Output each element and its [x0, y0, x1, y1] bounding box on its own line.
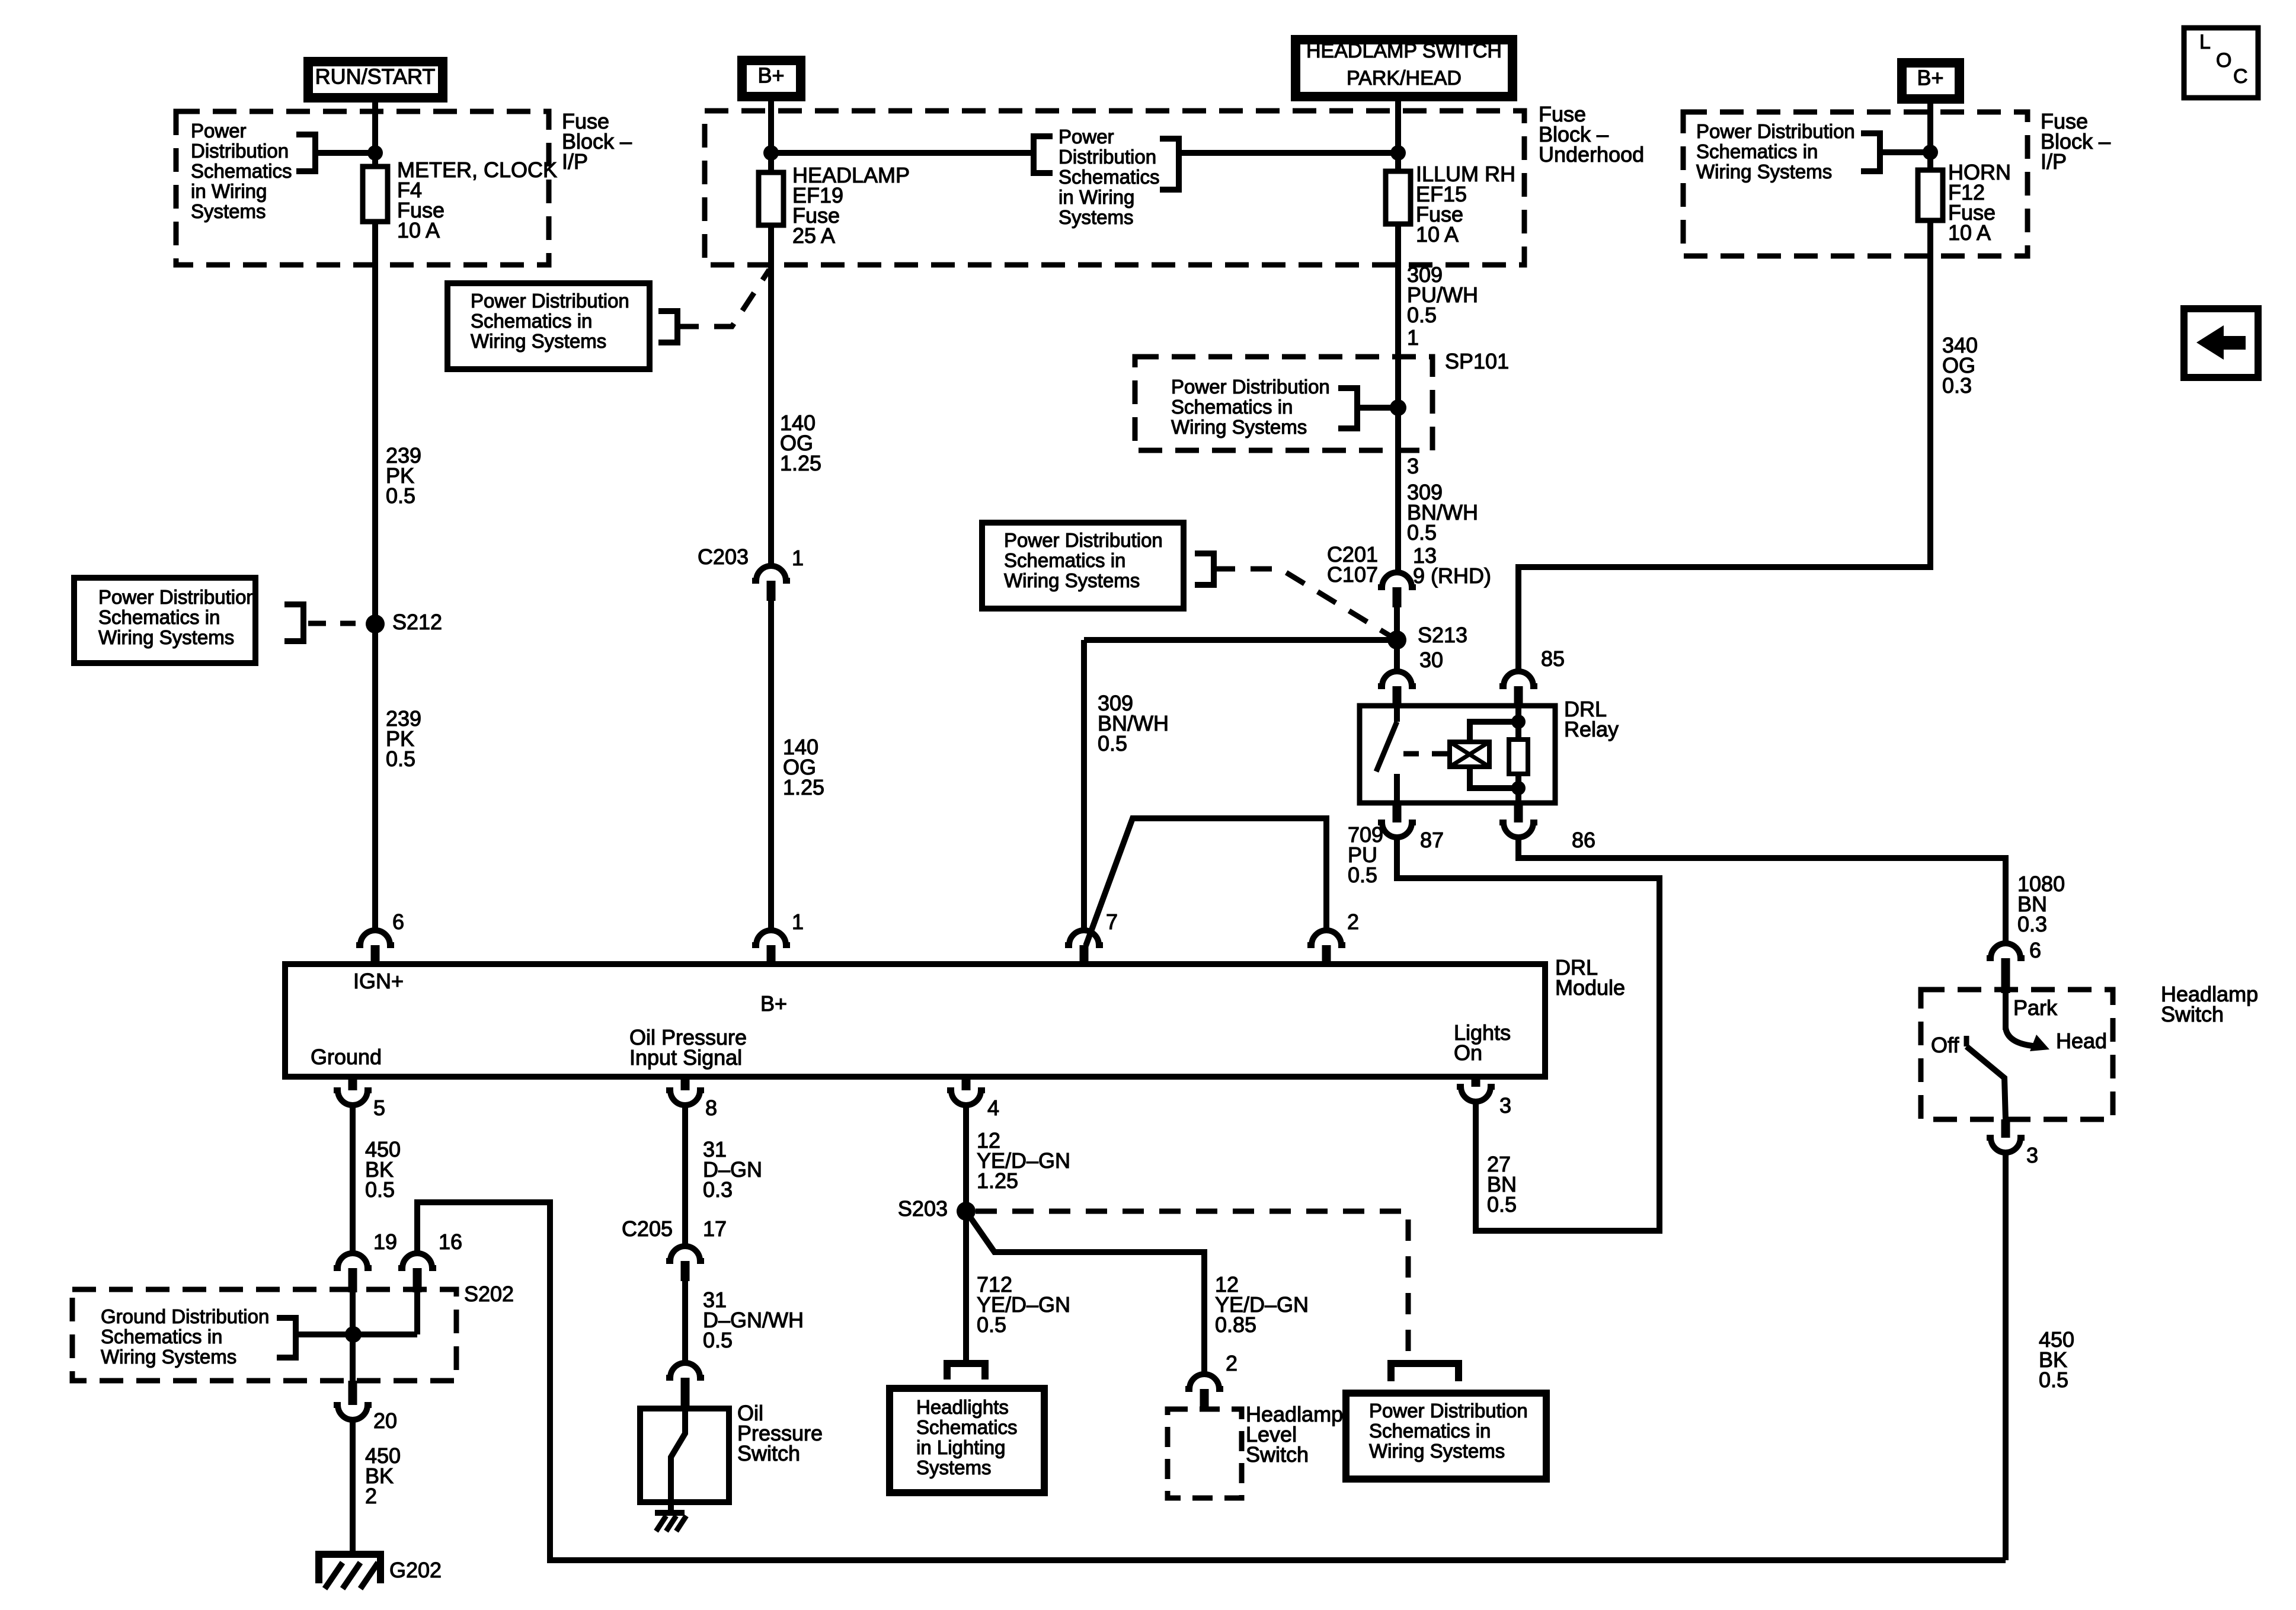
connector stub DRL pin 3	[1472, 1077, 1480, 1087]
svg-text:Power Distribution: Power Distribution	[1171, 376, 1330, 398]
connector dome S202 pin 16	[398, 1253, 436, 1268]
svg-text:O: O	[2216, 49, 2231, 72]
wire bracket to F12 wire	[1880, 149, 1930, 155]
svg-text:16: 16	[439, 1230, 462, 1254]
connector dome relay pin 85	[1499, 671, 1537, 686]
connector stub S202 pin 16	[413, 1268, 422, 1292]
wire down to DRL pin 7	[1081, 640, 1087, 932]
Headlamp Level Switch dashed box	[1168, 1409, 1242, 1498]
splice dot S213	[1387, 630, 1406, 649]
svg-text:5: 5	[373, 1096, 385, 1120]
wire bracket to F4 wire	[315, 150, 375, 156]
svg-text:SP101: SP101	[1445, 349, 1509, 373]
svg-text:85: 85	[1541, 646, 1565, 671]
svg-text:1.25: 1.25	[977, 1169, 1018, 1193]
svg-text:6: 6	[392, 910, 404, 934]
oil pressure switch ground symbol	[655, 1510, 685, 1516]
svg-text:Wiring Systems: Wiring Systems	[1369, 1440, 1505, 1462]
svg-text:0.5: 0.5	[1348, 863, 1377, 887]
connector cup DRL pin 3	[1457, 1087, 1495, 1102]
wire B+ down to fuse EF19	[768, 101, 774, 172]
wire S213 left to pin7 column	[1084, 637, 1397, 643]
connector stub relay pin 87	[1393, 803, 1402, 822]
svg-text:1: 1	[792, 910, 804, 934]
bracket right of underhood note	[1160, 139, 1179, 190]
note box Power Distribution Schematics (C201)	[982, 523, 1184, 609]
svg-text:PARK/HEAD: PARK/HEAD	[1347, 67, 1462, 89]
svg-text:0.5: 0.5	[1407, 303, 1437, 327]
connector dome DRL pin 1	[752, 930, 790, 945]
connector stub headlamp pin 6	[2001, 958, 2010, 993]
relay switch blade	[1376, 722, 1397, 772]
fuse EF19	[759, 172, 784, 225]
svg-text:Distribution: Distribution	[191, 140, 289, 162]
connector stub DRL pin 8	[681, 1077, 690, 1090]
svg-text:Schematics in: Schematics in	[471, 310, 592, 332]
wire junction to left bracket	[771, 150, 1034, 156]
svg-text:Switch: Switch	[1246, 1442, 1309, 1467]
svg-text:2: 2	[1226, 1351, 1237, 1375]
note box Power Distribution Schematics (EF19)	[447, 283, 650, 369]
Headlights Schematics box	[890, 1388, 1044, 1493]
svg-text:3: 3	[1499, 1093, 1511, 1118]
wire C203 down to DRL pin 1	[768, 601, 774, 932]
wire relay 86 to headlamp switch pin 6	[1518, 837, 2006, 943]
connector stub oil pressure switch	[681, 1378, 690, 1409]
connector stub C205	[681, 1261, 690, 1281]
relay dashed actuation link	[1403, 751, 1447, 757]
connector dome DRL pin 7	[1065, 930, 1103, 945]
fuse block I/P dashed box (left)	[176, 111, 549, 265]
svg-text:RUN/START: RUN/START	[315, 65, 436, 89]
back-arrow legend box	[2184, 309, 2258, 377]
svg-text:C205: C205	[622, 1217, 673, 1241]
svg-text:Switch: Switch	[2161, 1002, 2224, 1026]
connector cup DRL pin 5	[334, 1090, 372, 1105]
Power Distribution Schematics box (bottom right)	[1346, 1393, 1546, 1479]
headlamp switch travel arc with arrow	[2006, 1028, 2033, 1046]
svg-text:3: 3	[2026, 1143, 2038, 1167]
svg-text:Schematics: Schematics	[916, 1416, 1018, 1438]
connector dome relay pin 30	[1378, 671, 1416, 686]
svg-text:Wiring Systems: Wiring Systems	[101, 1346, 236, 1368]
svg-text:Input Signal: Input Signal	[629, 1045, 742, 1070]
bracket for note (left fuse block)	[296, 135, 315, 171]
svg-text:Systems: Systems	[916, 1457, 992, 1478]
DRL relay box	[1360, 706, 1555, 803]
wire F12 down and left to relay 85	[1518, 220, 1930, 671]
svg-text:Schematics in: Schematics in	[1369, 1420, 1491, 1442]
svg-text:in Lighting: in Lighting	[916, 1436, 1005, 1458]
wire RUN/START down to fuse F4	[372, 103, 378, 167]
relay coil box with X	[1450, 742, 1489, 767]
svg-text:Headlights: Headlights	[916, 1396, 1009, 1418]
wire DRL pin8 down to C205	[682, 1105, 688, 1247]
junction dot on F12 wire	[1923, 145, 1938, 160]
bracket right of C201 note box	[1195, 553, 1214, 585]
svg-text:Wiring Systems: Wiring Systems	[471, 330, 606, 352]
S202 dashed box	[72, 1289, 456, 1381]
svg-text:I/P: I/P	[562, 149, 588, 174]
svg-text:Power Distribution: Power Distribution	[471, 290, 629, 312]
svg-text:8: 8	[705, 1096, 717, 1120]
wire S203 diagonal to level switch	[966, 1211, 1204, 1375]
wire relay 87 to DRL pin 3	[1397, 837, 1659, 1231]
svg-text:C: C	[2233, 65, 2248, 88]
svg-text:G202: G202	[389, 1558, 442, 1582]
svg-text:Underhood: Underhood	[1539, 142, 1644, 167]
svg-text:Relay: Relay	[1564, 717, 1619, 741]
svg-text:Schematics in: Schematics in	[101, 1326, 222, 1347]
connector stub DRL pin 7	[1080, 945, 1089, 964]
wire right bracket to ILLUM wire	[1179, 150, 1398, 156]
connector C201/C107 stub	[1393, 587, 1402, 607]
connector stub DRL pin 2	[1322, 945, 1331, 964]
DRL module box	[285, 964, 1545, 1077]
svg-text:0.3: 0.3	[2017, 912, 2047, 936]
svg-text:S202: S202	[464, 1282, 514, 1306]
wire terminal power dist note	[1391, 1363, 1459, 1381]
svg-text:0.5: 0.5	[1098, 731, 1127, 756]
ground symbol G202	[319, 1554, 380, 1583]
svg-text:On: On	[1454, 1041, 1482, 1065]
power state box B+ (right)	[1902, 63, 1959, 99]
wire SP101 down to C201	[1395, 408, 1401, 572]
svg-text:25 A: 25 A	[792, 223, 835, 248]
svg-text:Schematics in: Schematics in	[1696, 140, 1818, 162]
svg-text:Schematics in: Schematics in	[1171, 396, 1293, 418]
wire 709 PU hat pin7 to pin2	[1086, 818, 1326, 946]
wire EF15 down to SP101	[1395, 224, 1401, 408]
wire S213 down to relay 30	[1394, 640, 1400, 673]
power state box RUN/START	[308, 62, 443, 98]
svg-text:in Wiring: in Wiring	[191, 180, 267, 202]
svg-text:in Wiring: in Wiring	[1059, 186, 1134, 208]
connector stub DRL pin 5	[348, 1077, 357, 1090]
connector stub level switch pin 2	[1200, 1389, 1209, 1409]
svg-text:Power: Power	[1059, 126, 1114, 148]
bracket right of S202 note	[277, 1318, 296, 1358]
wire S202 bracket to junction	[296, 1331, 417, 1337]
connector stub DRL pin 1	[767, 945, 776, 964]
svg-text:0.5: 0.5	[386, 747, 415, 771]
SP101 dashed box	[1135, 357, 1432, 450]
svg-text:Power Distribution: Power Distribution	[98, 586, 257, 608]
connector stub S202 pin 19	[348, 1268, 357, 1292]
LOC legend box	[2184, 28, 2258, 98]
svg-text:0.5: 0.5	[386, 484, 415, 508]
svg-text:10 A: 10 A	[1416, 222, 1459, 247]
svg-text:Module: Module	[1555, 975, 1625, 1000]
svg-text:2: 2	[365, 1484, 377, 1508]
junction dot on EF15 wire	[1390, 145, 1406, 161]
svg-text:B+: B+	[760, 991, 787, 1016]
svg-text:Wiring Systems: Wiring Systems	[1004, 569, 1140, 591]
svg-text:10 A: 10 A	[397, 218, 440, 242]
dashed link to S212	[308, 621, 356, 626]
relay lower contact stub to pin87	[1394, 774, 1400, 803]
connector stub relay pin 86	[1514, 803, 1523, 822]
oil pressure switch blade	[671, 1409, 685, 1512]
connector stub DRL pin 6	[371, 945, 380, 964]
relay resistor	[1509, 740, 1528, 774]
dashed link C201 note to S213	[1214, 569, 1394, 638]
relay junction dot top (85)	[1511, 715, 1526, 729]
svg-text:Switch: Switch	[737, 1441, 800, 1465]
connector dome S202 pin 19	[334, 1253, 372, 1268]
svg-text:3: 3	[1407, 454, 1419, 478]
svg-text:1.25: 1.25	[780, 451, 821, 475]
dashed wire S203 to power dist note	[976, 1211, 1408, 1354]
headlamp switch off contact tick	[1964, 1036, 1969, 1046]
svg-text:B+: B+	[1917, 66, 1943, 90]
svg-text:IGN+: IGN+	[353, 969, 404, 993]
connector dome C205	[666, 1246, 704, 1261]
connector stub relay pin 30	[1393, 686, 1402, 706]
connector dome DRL pin 6	[356, 930, 394, 945]
svg-text:19: 19	[373, 1230, 397, 1254]
splice dot SP101	[1390, 399, 1406, 416]
svg-text:1: 1	[792, 546, 804, 570]
svg-text:9 (RHD): 9 (RHD)	[1413, 564, 1491, 588]
connector dome level switch pin 2	[1185, 1374, 1223, 1389]
wire S202 pin 20 down to G202	[350, 1419, 356, 1554]
svg-text:Off: Off	[1931, 1033, 1959, 1057]
svg-text:Park: Park	[2013, 996, 2058, 1020]
connector stub headlamp pin 3	[2001, 1119, 2010, 1138]
bracket right of EF19 note box	[658, 311, 677, 343]
connector dome oil pressure switch	[666, 1363, 704, 1378]
svg-text:Power Distribution: Power Distribution	[1696, 120, 1855, 142]
svg-text:B+: B+	[757, 63, 784, 88]
svg-text:Power Distribution: Power Distribution	[1369, 1400, 1528, 1422]
svg-text:I/P: I/P	[2041, 149, 2067, 174]
fuse EF15	[1386, 171, 1411, 224]
svg-text:1: 1	[1407, 325, 1419, 350]
svg-text:0.5: 0.5	[977, 1313, 1006, 1337]
wire HEADLAMP SWITCH down to fuse EF15	[1395, 101, 1401, 171]
wire S202 pin16 vertical inside box	[414, 1292, 420, 1334]
svg-text:10 A: 10 A	[1948, 220, 1991, 245]
svg-text:Power: Power	[191, 120, 247, 142]
note box Power Distribution Schematics (S212)	[74, 578, 255, 663]
wire SP101 bracket to splice	[1357, 405, 1398, 411]
connector cup DRL pin 4	[947, 1090, 985, 1105]
fuse block underhood dashed box	[705, 111, 1524, 265]
wire C201 to S213	[1394, 607, 1400, 640]
connector stub relay pin 85	[1514, 686, 1523, 706]
svg-text:4: 4	[987, 1096, 999, 1120]
svg-text:0.3: 0.3	[1942, 373, 1972, 398]
svg-text:Wiring Systems: Wiring Systems	[98, 626, 234, 648]
wire EF19 down to C203	[768, 225, 774, 566]
svg-text:Distribution: Distribution	[1059, 146, 1156, 168]
svg-text:20: 20	[373, 1409, 397, 1433]
svg-text:C203: C203	[698, 545, 749, 569]
relay coil wire top	[1470, 722, 1518, 742]
bracket right of SP101 note	[1338, 388, 1357, 428]
wire S202 pin16 up over and down to bottom rail	[417, 1202, 2006, 1560]
svg-text:S213: S213	[1418, 623, 1467, 647]
relay coil wire bottom	[1470, 767, 1518, 788]
splice dot S203	[957, 1202, 976, 1221]
fuse block I/P dashed box (right)	[1683, 112, 2028, 256]
relay wire 85 to resistor	[1515, 706, 1521, 740]
svg-text:6: 6	[2029, 938, 2041, 962]
svg-text:Wiring Systems: Wiring Systems	[1171, 416, 1307, 438]
power state box B+ (left)	[742, 60, 801, 97]
bracket right of S212 note box	[284, 604, 303, 641]
connector dome headlamp pin 6	[1987, 943, 2025, 958]
wire F4 fuse down to S212	[372, 222, 378, 616]
back-arrow icon	[2196, 325, 2246, 360]
svg-text:0.5: 0.5	[365, 1177, 395, 1202]
connector C203 dome	[752, 566, 790, 581]
wire terminal headlights	[947, 1363, 985, 1379]
wire C205 down to oil pressure switch	[682, 1281, 688, 1363]
connector stub DRL pin 4	[962, 1077, 971, 1090]
svg-text:0.85: 0.85	[1215, 1313, 1256, 1337]
svg-text:HEADLAMP SWITCH: HEADLAMP SWITCH	[1306, 40, 1502, 62]
relay fixed contact stub from pin30	[1394, 706, 1400, 722]
svg-text:Head: Head	[2056, 1029, 2107, 1053]
connector C201/C107 dome	[1378, 572, 1416, 587]
svg-text:Systems: Systems	[191, 200, 266, 222]
oil pressure switch box	[640, 1409, 729, 1502]
svg-text:2: 2	[1347, 910, 1359, 934]
wire DRL pin5 down to S202 pin 19	[350, 1105, 356, 1254]
svg-text:0.5: 0.5	[1487, 1192, 1517, 1217]
svg-text:S212: S212	[392, 610, 442, 634]
headlamp switch blade	[1966, 1046, 2006, 1119]
splice dot S212	[366, 614, 385, 633]
dashed link to EF19 wire	[677, 270, 769, 327]
connector cup DRL pin 8	[666, 1090, 704, 1105]
connector C203 stub	[767, 581, 776, 601]
Headlamp Switch dashed box	[1921, 990, 2113, 1119]
svg-text:0.5: 0.5	[1407, 520, 1437, 545]
svg-text:Schematics in: Schematics in	[1004, 549, 1125, 571]
relay wire resistor to 86	[1515, 774, 1521, 803]
svg-text:86: 86	[1572, 828, 1595, 852]
svg-text:Schematics: Schematics	[1059, 166, 1160, 188]
svg-text:30: 30	[1419, 648, 1443, 672]
wire headlamp pin 3 down to bottom rail	[2003, 1152, 2009, 1560]
svg-text:Ground Distribution: Ground Distribution	[101, 1305, 269, 1327]
relay junction dot bottom (86)	[1511, 781, 1526, 795]
svg-text:Power Distribution: Power Distribution	[1004, 529, 1163, 551]
svg-text:17: 17	[703, 1217, 727, 1241]
fuse F12 HORN	[1918, 170, 1943, 220]
svg-text:Schematics in: Schematics in	[98, 606, 220, 628]
splice dot S202	[345, 1326, 362, 1343]
svg-text:87: 87	[1420, 828, 1444, 852]
junction dot on EF19 wire	[763, 145, 779, 161]
connector cup S202 pin 20	[334, 1405, 372, 1420]
connector cup relay pin 86	[1499, 822, 1537, 837]
svg-text:Ground: Ground	[311, 1045, 382, 1069]
connector cup headlamp pin 3	[1987, 1138, 2025, 1153]
svg-text:0.5: 0.5	[2039, 1368, 2068, 1392]
headlamp switch pin6 inner wire	[2003, 993, 2009, 1030]
power state box HEADLAMP SWITCH PARK/HEAD	[1296, 40, 1512, 97]
svg-text:0.5: 0.5	[703, 1328, 733, 1352]
bracket left of underhood note	[1034, 136, 1053, 173]
bracket right of right-fuse-block note	[1861, 133, 1880, 171]
connector stub S202 pin 20	[348, 1381, 357, 1405]
junction dot on F4 wire	[367, 145, 383, 161]
svg-text:S203: S203	[898, 1196, 948, 1221]
wire S212 down to DRL pin 6	[372, 624, 378, 932]
connector cup relay pin 87	[1378, 822, 1416, 837]
svg-text:0.3: 0.3	[703, 1177, 733, 1202]
wire S202 pin19 vertical through box	[350, 1292, 356, 1381]
svg-text:C107: C107	[1327, 562, 1378, 587]
wire DRL pin4 down to S203	[963, 1105, 969, 1363]
fuse F4	[363, 167, 388, 222]
connector dome DRL pin 2	[1307, 930, 1345, 945]
svg-text:1.25: 1.25	[783, 775, 824, 799]
svg-text:Schematics: Schematics	[191, 160, 292, 182]
svg-text:Systems: Systems	[1059, 206, 1134, 228]
svg-text:Wiring Systems: Wiring Systems	[1696, 161, 1832, 183]
wire B+ right down to fuse F12	[1927, 104, 1933, 170]
svg-text:L: L	[2199, 31, 2211, 53]
svg-text:7: 7	[1106, 910, 1118, 934]
